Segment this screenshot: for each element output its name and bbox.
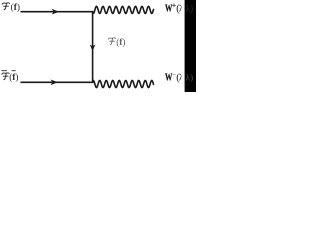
arrow on vertical propagator (down) xyxy=(90,45,96,51)
arrow on top fermion line xyxy=(52,9,59,15)
whiteout clipping lambda glyphs before bar xyxy=(181,0,184,16)
svg-text:(f): (f) xyxy=(116,37,125,48)
svg-text:(f): (f) xyxy=(11,2,20,13)
svg-text:λ): λ) xyxy=(185,4,193,15)
label Fbar(fbar) bottom-left : script F with bars xyxy=(2,73,9,80)
svg-text:(f): (f) xyxy=(9,72,18,83)
wire: internal fermion propagator vertical xyxy=(92,11,94,83)
label F(f) top-left : script F xyxy=(2,3,9,10)
wire: incoming fermion line top xyxy=(21,11,94,13)
arrow on bottom fermion line xyxy=(51,80,58,86)
boson W+ wavy line top xyxy=(93,6,154,13)
boson W- wavy line bottom xyxy=(93,80,154,87)
background xyxy=(0,0,196,92)
label F(f) middle (internal fermion) xyxy=(108,38,115,45)
black redaction bar right edge xyxy=(185,0,196,92)
svg-text:λ): λ) xyxy=(185,73,193,84)
wire: incoming antifermion line bottom xyxy=(21,81,94,83)
